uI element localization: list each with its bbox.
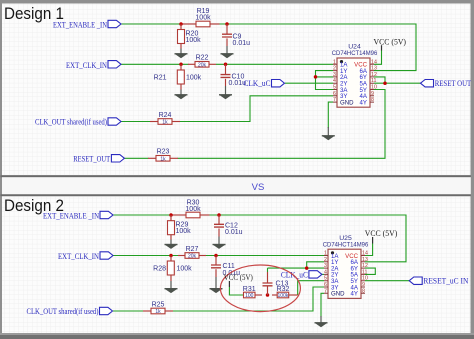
resistor R19 leads bbox=[181, 23, 196, 25]
svg-text:CD74HCT14M96: CD74HCT14M96 bbox=[332, 50, 378, 57]
svg-text:6: 6 bbox=[333, 91, 336, 97]
svg-text:VCC (5V): VCC (5V) bbox=[365, 228, 398, 238]
svg-text:R32: R32 bbox=[277, 286, 290, 293]
port EXT_CLK_IN (design2) bbox=[100, 252, 113, 259]
highlight ellipse around RC addition bbox=[220, 265, 300, 312]
svg-text:14: 14 bbox=[362, 251, 368, 257]
wire VCC to pin 14 (design1) bbox=[374, 51, 382, 65]
svg-text:VS: VS bbox=[252, 182, 265, 193]
svg-text:EXT_CLK_IN: EXT_CLK_IN bbox=[66, 61, 107, 70]
port CLK_OUT shared (design2) bbox=[100, 307, 113, 314]
svg-text:R28: R28 bbox=[153, 266, 166, 273]
ground below R28 bbox=[170, 281, 172, 289]
svg-text:3: 3 bbox=[324, 263, 327, 269]
resistor R31 bbox=[244, 292, 256, 298]
wire 3A to R32 branch (design2) bbox=[298, 281, 324, 295]
svg-text:R24: R24 bbox=[159, 112, 172, 119]
wire 5A to RESET OUT port (design1) bbox=[374, 82, 421, 84]
wire 6Y to 5A loop (design2) bbox=[365, 268, 375, 274]
svg-text:RESET OUT: RESET OUT bbox=[435, 79, 472, 88]
svg-text:GND: GND bbox=[340, 99, 354, 106]
wire 5Y to RESET_OUT (design1) bbox=[178, 90, 386, 159]
svg-text:100k: 100k bbox=[185, 206, 201, 213]
svg-text:3: 3 bbox=[333, 72, 336, 78]
svg-text:EXT_ENABLE _IN: EXT_ENABLE _IN bbox=[53, 21, 107, 30]
svg-text:1k: 1k bbox=[155, 309, 161, 315]
svg-text:0.01u: 0.01u bbox=[225, 229, 243, 236]
svg-text:20k: 20k bbox=[188, 254, 197, 260]
svg-text:2: 2 bbox=[324, 257, 327, 263]
svg-text:R25: R25 bbox=[152, 301, 165, 308]
resistor R28 bbox=[170, 256, 172, 262]
wire 5Y to RESET_uC IN (design2) bbox=[365, 280, 409, 282]
svg-text:8: 8 bbox=[371, 97, 374, 103]
svg-text:12: 12 bbox=[371, 72, 377, 78]
resistor R24 bbox=[158, 119, 172, 125]
svg-text:100k: 100k bbox=[186, 75, 202, 82]
wire VCC to R31 (design2) bbox=[229, 287, 243, 295]
svg-text:10: 10 bbox=[362, 276, 368, 282]
wire EXT_ENABLE_IN net (design1) bbox=[121, 23, 181, 25]
svg-text:9: 9 bbox=[362, 282, 365, 288]
node junction R21 bbox=[179, 63, 183, 67]
capacitor C10 bbox=[225, 64, 227, 74]
port CLK_OUT shared (design1) bbox=[108, 118, 121, 125]
resistor R23 bbox=[156, 156, 170, 162]
resistor R23 leads bbox=[148, 157, 156, 159]
resistor R25 leads bbox=[143, 310, 151, 312]
svg-text:100k: 100k bbox=[177, 266, 193, 273]
svg-text:CD74HCT14M96: CD74HCT14M96 bbox=[323, 241, 369, 248]
wire 3Y to CLK_OUT (design2) bbox=[173, 287, 325, 311]
port RESET OUT (design1) bbox=[421, 80, 434, 87]
svg-text:14: 14 bbox=[371, 59, 377, 65]
svg-text:5: 5 bbox=[333, 85, 336, 91]
resistor R21 bbox=[180, 64, 182, 70]
svg-text:20k: 20k bbox=[198, 62, 207, 68]
svg-text:CLK_uC: CLK_uC bbox=[244, 79, 271, 88]
ground below C9 bbox=[226, 46, 228, 54]
wire CLK_uC to 2Y (design1) bbox=[285, 82, 333, 84]
port RESET_OUT (design1) bbox=[111, 155, 124, 162]
svg-text:4: 4 bbox=[324, 269, 327, 275]
svg-text:11: 11 bbox=[371, 78, 377, 84]
resistor R22 bbox=[195, 62, 209, 68]
svg-text:6: 6 bbox=[324, 282, 327, 288]
resistor R32 bbox=[277, 292, 289, 298]
wire EXT_CLK_IN net (design1) bbox=[121, 63, 189, 65]
svg-text:CLK_OUT shared(if used): CLK_OUT shared(if used) bbox=[27, 307, 99, 316]
resistor R31/R32 leads bbox=[255, 294, 262, 296]
svg-text:8: 8 bbox=[362, 288, 365, 294]
svg-text:GND: GND bbox=[331, 291, 345, 298]
svg-text:100k: 100k bbox=[176, 228, 192, 235]
op-amp U25 hex schmitt inverter CD74HCT14M96 bbox=[328, 249, 361, 298]
node junction 6Y-5A-RESETOUT (design1) bbox=[383, 81, 387, 85]
svg-text:EXT_CLK_IN: EXT_CLK_IN bbox=[58, 252, 99, 261]
svg-text:7: 7 bbox=[333, 97, 336, 103]
node junction 1Y-2A (design1) bbox=[314, 75, 318, 79]
ground IC U25 bbox=[320, 316, 322, 323]
svg-text:13: 13 bbox=[371, 66, 377, 72]
resistor R22 leads bbox=[188, 63, 195, 65]
node junction 1Y-2A (design2) bbox=[305, 266, 309, 270]
svg-text:100k: 100k bbox=[186, 37, 202, 44]
node junction C9 bbox=[225, 22, 229, 26]
wire GND pin 7 (design2) bbox=[321, 293, 324, 317]
svg-text:4: 4 bbox=[333, 78, 336, 84]
port EXT_CLK_IN (design1) bbox=[108, 61, 121, 68]
resistor R27 leads bbox=[178, 255, 185, 257]
svg-text:12: 12 bbox=[362, 263, 368, 269]
svg-text:13: 13 bbox=[362, 257, 368, 263]
svg-text:10: 10 bbox=[371, 85, 377, 91]
resistor R29 bbox=[170, 215, 172, 221]
wire 1Y down to 2A (design2) bbox=[307, 262, 324, 268]
op-amp U24 hex schmitt inverter CD74HCT14M96 bbox=[337, 58, 370, 107]
svg-text:R31: R31 bbox=[243, 286, 256, 293]
node junction C11 bbox=[214, 254, 218, 258]
node junction R28 bbox=[169, 254, 173, 258]
ground below C12 bbox=[218, 237, 220, 245]
ground below C11 bbox=[215, 277, 217, 289]
wire 6Y to 5A (design1) bbox=[374, 77, 385, 83]
svg-text:100k: 100k bbox=[278, 293, 289, 299]
wire EXT_ENABLE_IN net (design2) bbox=[113, 214, 171, 216]
port EXT_ENABLE_IN (design1) bbox=[108, 20, 121, 27]
svg-text:R21: R21 bbox=[154, 75, 167, 82]
capacitor C9 bbox=[226, 24, 228, 34]
capacitor C13 bbox=[267, 286, 269, 295]
svg-text:CLK_uC: CLK_uC bbox=[281, 270, 308, 279]
svg-text:2: 2 bbox=[333, 66, 336, 72]
svg-text:1: 1 bbox=[324, 251, 327, 257]
svg-text:VCC (5V): VCC (5V) bbox=[374, 36, 407, 46]
node junction R19/R20 bbox=[179, 22, 183, 26]
svg-text:0.01u: 0.01u bbox=[233, 40, 251, 47]
port EXT_ENABLE_IN (design2) bbox=[100, 211, 113, 218]
ground below R20 bbox=[180, 49, 182, 54]
panel Design 1 bbox=[2, 4, 471, 176]
wire 3Y to CLK_OUT (design1) bbox=[180, 96, 334, 122]
port CLK_uC (design2) bbox=[309, 271, 322, 278]
node junction C12 bbox=[217, 213, 221, 217]
port CLK_uC (design1) bbox=[272, 80, 285, 87]
node junction C10 bbox=[224, 63, 228, 67]
svg-text:5: 5 bbox=[324, 276, 327, 282]
gap between panels bbox=[2, 177, 471, 194]
svg-text:9: 9 bbox=[371, 91, 374, 97]
ground below R29 bbox=[170, 240, 172, 245]
wire EXT_CLK_IN net (design2) bbox=[113, 255, 179, 257]
resistor R19 bbox=[196, 21, 210, 27]
resistor R24 leads bbox=[150, 121, 158, 123]
svg-text:RESET_OUT: RESET_OUT bbox=[73, 155, 110, 164]
svg-text:4Y: 4Y bbox=[360, 99, 367, 106]
capacitor C11 bbox=[215, 256, 217, 266]
panel Design 2 bbox=[2, 196, 471, 333]
wire CLK_uC to 2Y (design2) bbox=[322, 273, 324, 275]
wire 1Y to 2A/3A chain (design1) bbox=[316, 71, 334, 90]
svg-text:7: 7 bbox=[324, 288, 327, 294]
resistor R30 leads bbox=[171, 214, 186, 216]
wire 2A net with C13 tap (design2) bbox=[268, 267, 325, 269]
ground below R21 bbox=[180, 90, 182, 95]
ground IC U24 bbox=[327, 127, 329, 136]
svg-text:RESET_uC IN: RESET_uC IN bbox=[423, 277, 468, 286]
svg-text:R23: R23 bbox=[157, 149, 170, 156]
resistor R27 bbox=[185, 253, 199, 259]
resistor R20 bbox=[180, 24, 182, 30]
svg-text:R22: R22 bbox=[196, 55, 209, 62]
wire VCC to pin 14 (design2) bbox=[365, 244, 373, 256]
svg-text:11: 11 bbox=[362, 269, 368, 275]
resistor R25 bbox=[151, 308, 165, 314]
svg-text:1: 1 bbox=[333, 59, 336, 65]
port RESET_uC IN (design2) bbox=[409, 277, 422, 284]
capacitor C12 bbox=[218, 215, 220, 224]
ground below C10 bbox=[225, 86, 227, 95]
svg-text:EXT_ENABLE _IN: EXT_ENABLE _IN bbox=[43, 212, 99, 221]
node junction R29 bbox=[169, 213, 173, 217]
svg-text:VCC (5V): VCC (5V) bbox=[224, 273, 253, 282]
resistor R30 bbox=[186, 212, 200, 218]
wire GND pin 7 (design1) bbox=[328, 102, 333, 128]
svg-text:1k: 1k bbox=[160, 156, 166, 162]
svg-text:1k: 1k bbox=[162, 120, 168, 126]
node junction R31-C13-R32 bbox=[266, 293, 270, 297]
svg-text:100: 100 bbox=[245, 293, 254, 299]
svg-text:4Y: 4Y bbox=[351, 291, 358, 298]
svg-text:CLK_OUT shared(if used): CLK_OUT shared(if used) bbox=[35, 118, 107, 127]
svg-text:R27: R27 bbox=[186, 246, 199, 253]
svg-text:100k: 100k bbox=[195, 15, 211, 22]
